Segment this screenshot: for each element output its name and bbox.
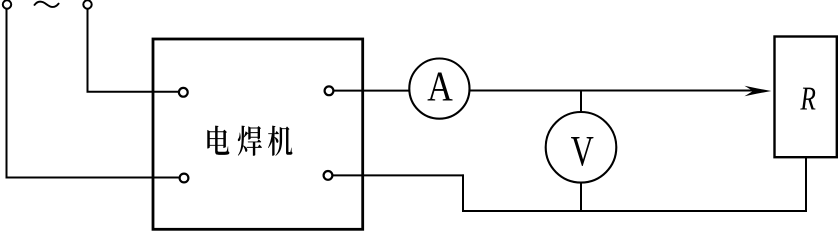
wire voltmeter bottom tap (580, 183, 582, 212)
wire ammeter to load R with current arrow (470, 90, 757, 92)
terminal lower-left of welding machine (180, 174, 189, 183)
label A (428, 73, 453, 101)
label 电焊机 (welding machine) (207, 126, 292, 156)
welding machine box U1 (153, 39, 363, 229)
wire voltmeter top tap (580, 90, 582, 113)
resistor R box (775, 37, 837, 158)
terminal upper-right of welding machine (325, 86, 334, 95)
terminal lower-right of welding machine (324, 171, 333, 180)
terminal upper-left of welding machine (179, 88, 188, 97)
terminal J2 (AC input, right) (83, 0, 91, 8)
ammeter A1 circle (409, 59, 469, 119)
wire J1 down left side (6, 9, 8, 178)
label V (571, 137, 593, 166)
voltmeter V1 circle (546, 112, 617, 183)
wire welding machine upper output to ammeter (334, 90, 409, 92)
wire up to resistor R bottom (805, 156, 807, 212)
terminal J1 (AC input, left) (3, 0, 11, 8)
wire return path step down (462, 174, 464, 211)
wire welding machine lower output (return path start) (333, 174, 465, 176)
wire to welding machine upper input (87, 91, 179, 93)
label R (800, 88, 815, 110)
wire return path bottom run (462, 210, 807, 212)
arrowhead (current direction into R) (745, 86, 772, 97)
wire J2 down (87, 9, 89, 92)
AC source symbol ~ (35, 2, 59, 7)
wire bottom-left to welding machine lower input (6, 177, 179, 179)
